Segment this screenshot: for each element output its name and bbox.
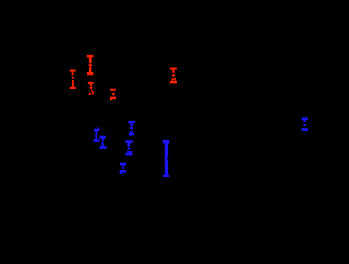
voltage source V1 [70, 70, 76, 90]
current source I2 [100, 136, 107, 149]
capacitor C1 [163, 140, 169, 177]
voltage source V3 [110, 89, 116, 101]
voltage source V5 [120, 163, 126, 174]
current source I5 [302, 117, 308, 130]
resistor R1 [93, 127, 99, 141]
voltage source V2 [87, 55, 94, 76]
voltage source V4 [170, 68, 177, 84]
current source I3 [128, 121, 135, 136]
current source I4 [125, 140, 133, 155]
current source I1 [88, 82, 94, 95]
